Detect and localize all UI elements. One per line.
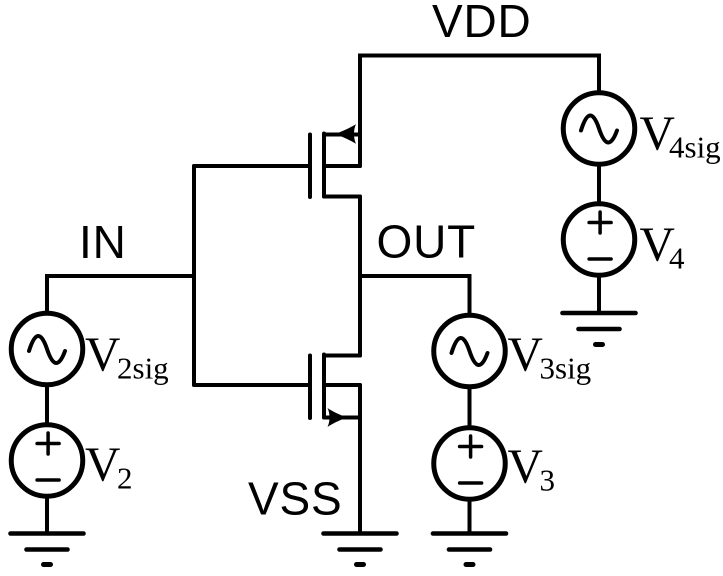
svg-text:V: V [85, 327, 120, 382]
wire V2 to ground [45, 496, 49, 534]
transistor M1 PMOS source lead [324, 133, 360, 137]
source V2sig sine [29, 336, 65, 363]
transistor M1 PMOS gate bar [308, 135, 312, 198]
svg-text:V: V [85, 436, 120, 491]
source V3sig sine [452, 338, 488, 365]
wire PMOS gate lead [194, 164, 308, 168]
source V4 minus sign [589, 257, 611, 261]
transistor M2 NMOS bulk lead [324, 383, 360, 387]
source V2 circle [11, 425, 83, 497]
source V4 plus sign [589, 212, 611, 233]
transistor M2 NMOS source lead [324, 416, 360, 420]
svg-text:VSS: VSS [248, 473, 342, 525]
wire gate bus vertical [192, 166, 196, 385]
wire V3 to ground [468, 499, 472, 534]
source V4sig sine [581, 115, 617, 142]
source V2 plus sign [37, 433, 59, 454]
transistor M2 NMOS drain lead [324, 354, 360, 358]
transistor M2 NMOS channel bar [322, 355, 326, 418]
wire NMOS source to VSS ground [358, 385, 362, 534]
transistor M1 PMOS source arrow [335, 124, 356, 143]
svg-text:4: 4 [669, 241, 685, 276]
svg-text:V: V [508, 327, 543, 382]
transistor M1 PMOS channel bar [322, 134, 326, 197]
svg-text:4sig: 4sig [669, 129, 721, 164]
svg-text:2sig: 2sig [117, 351, 169, 386]
wire V4 to ground [597, 275, 601, 313]
source V2sig circle [11, 313, 83, 385]
wire V4sig to V4 [597, 164, 601, 204]
source V3 plus sign [460, 436, 482, 457]
source V4sig circle [563, 93, 635, 165]
transistor M2 NMOS source arrow [328, 408, 348, 427]
wire OUT horizontal [360, 276, 470, 313]
transistor M1 PMOS bulk lead [324, 164, 360, 168]
ground GND3 [433, 534, 506, 565]
wire NMOS gate lead [194, 383, 308, 387]
source V4 circle [563, 204, 635, 276]
svg-text:OUT: OUT [377, 216, 477, 268]
wire V2sig to V2 [45, 385, 49, 426]
svg-text:2: 2 [117, 460, 133, 495]
transistor M1 PMOS drain lead [324, 195, 360, 199]
transistor M2 NMOS gate bar [308, 356, 312, 419]
wire PMOS drain to NMOS drain (OUT node) [358, 197, 362, 356]
svg-text:3: 3 [540, 462, 556, 497]
ground GND-VSS [324, 534, 397, 565]
source V3sig circle [434, 315, 506, 387]
ground GND2 [11, 534, 84, 565]
ground GND4 [563, 313, 636, 345]
source V2 minus sign [37, 478, 59, 482]
wire IN horizontal [47, 276, 194, 311]
wire VDD horizontal [360, 56, 599, 167]
source V3 circle [434, 428, 506, 500]
svg-text:VDD: VDD [432, 0, 532, 47]
svg-text:V: V [508, 438, 543, 493]
wire V3sig to V3 [468, 387, 472, 429]
source V3 minus sign [460, 481, 482, 485]
svg-text:3sig: 3sig [540, 351, 592, 386]
svg-text:IN: IN [79, 216, 127, 268]
